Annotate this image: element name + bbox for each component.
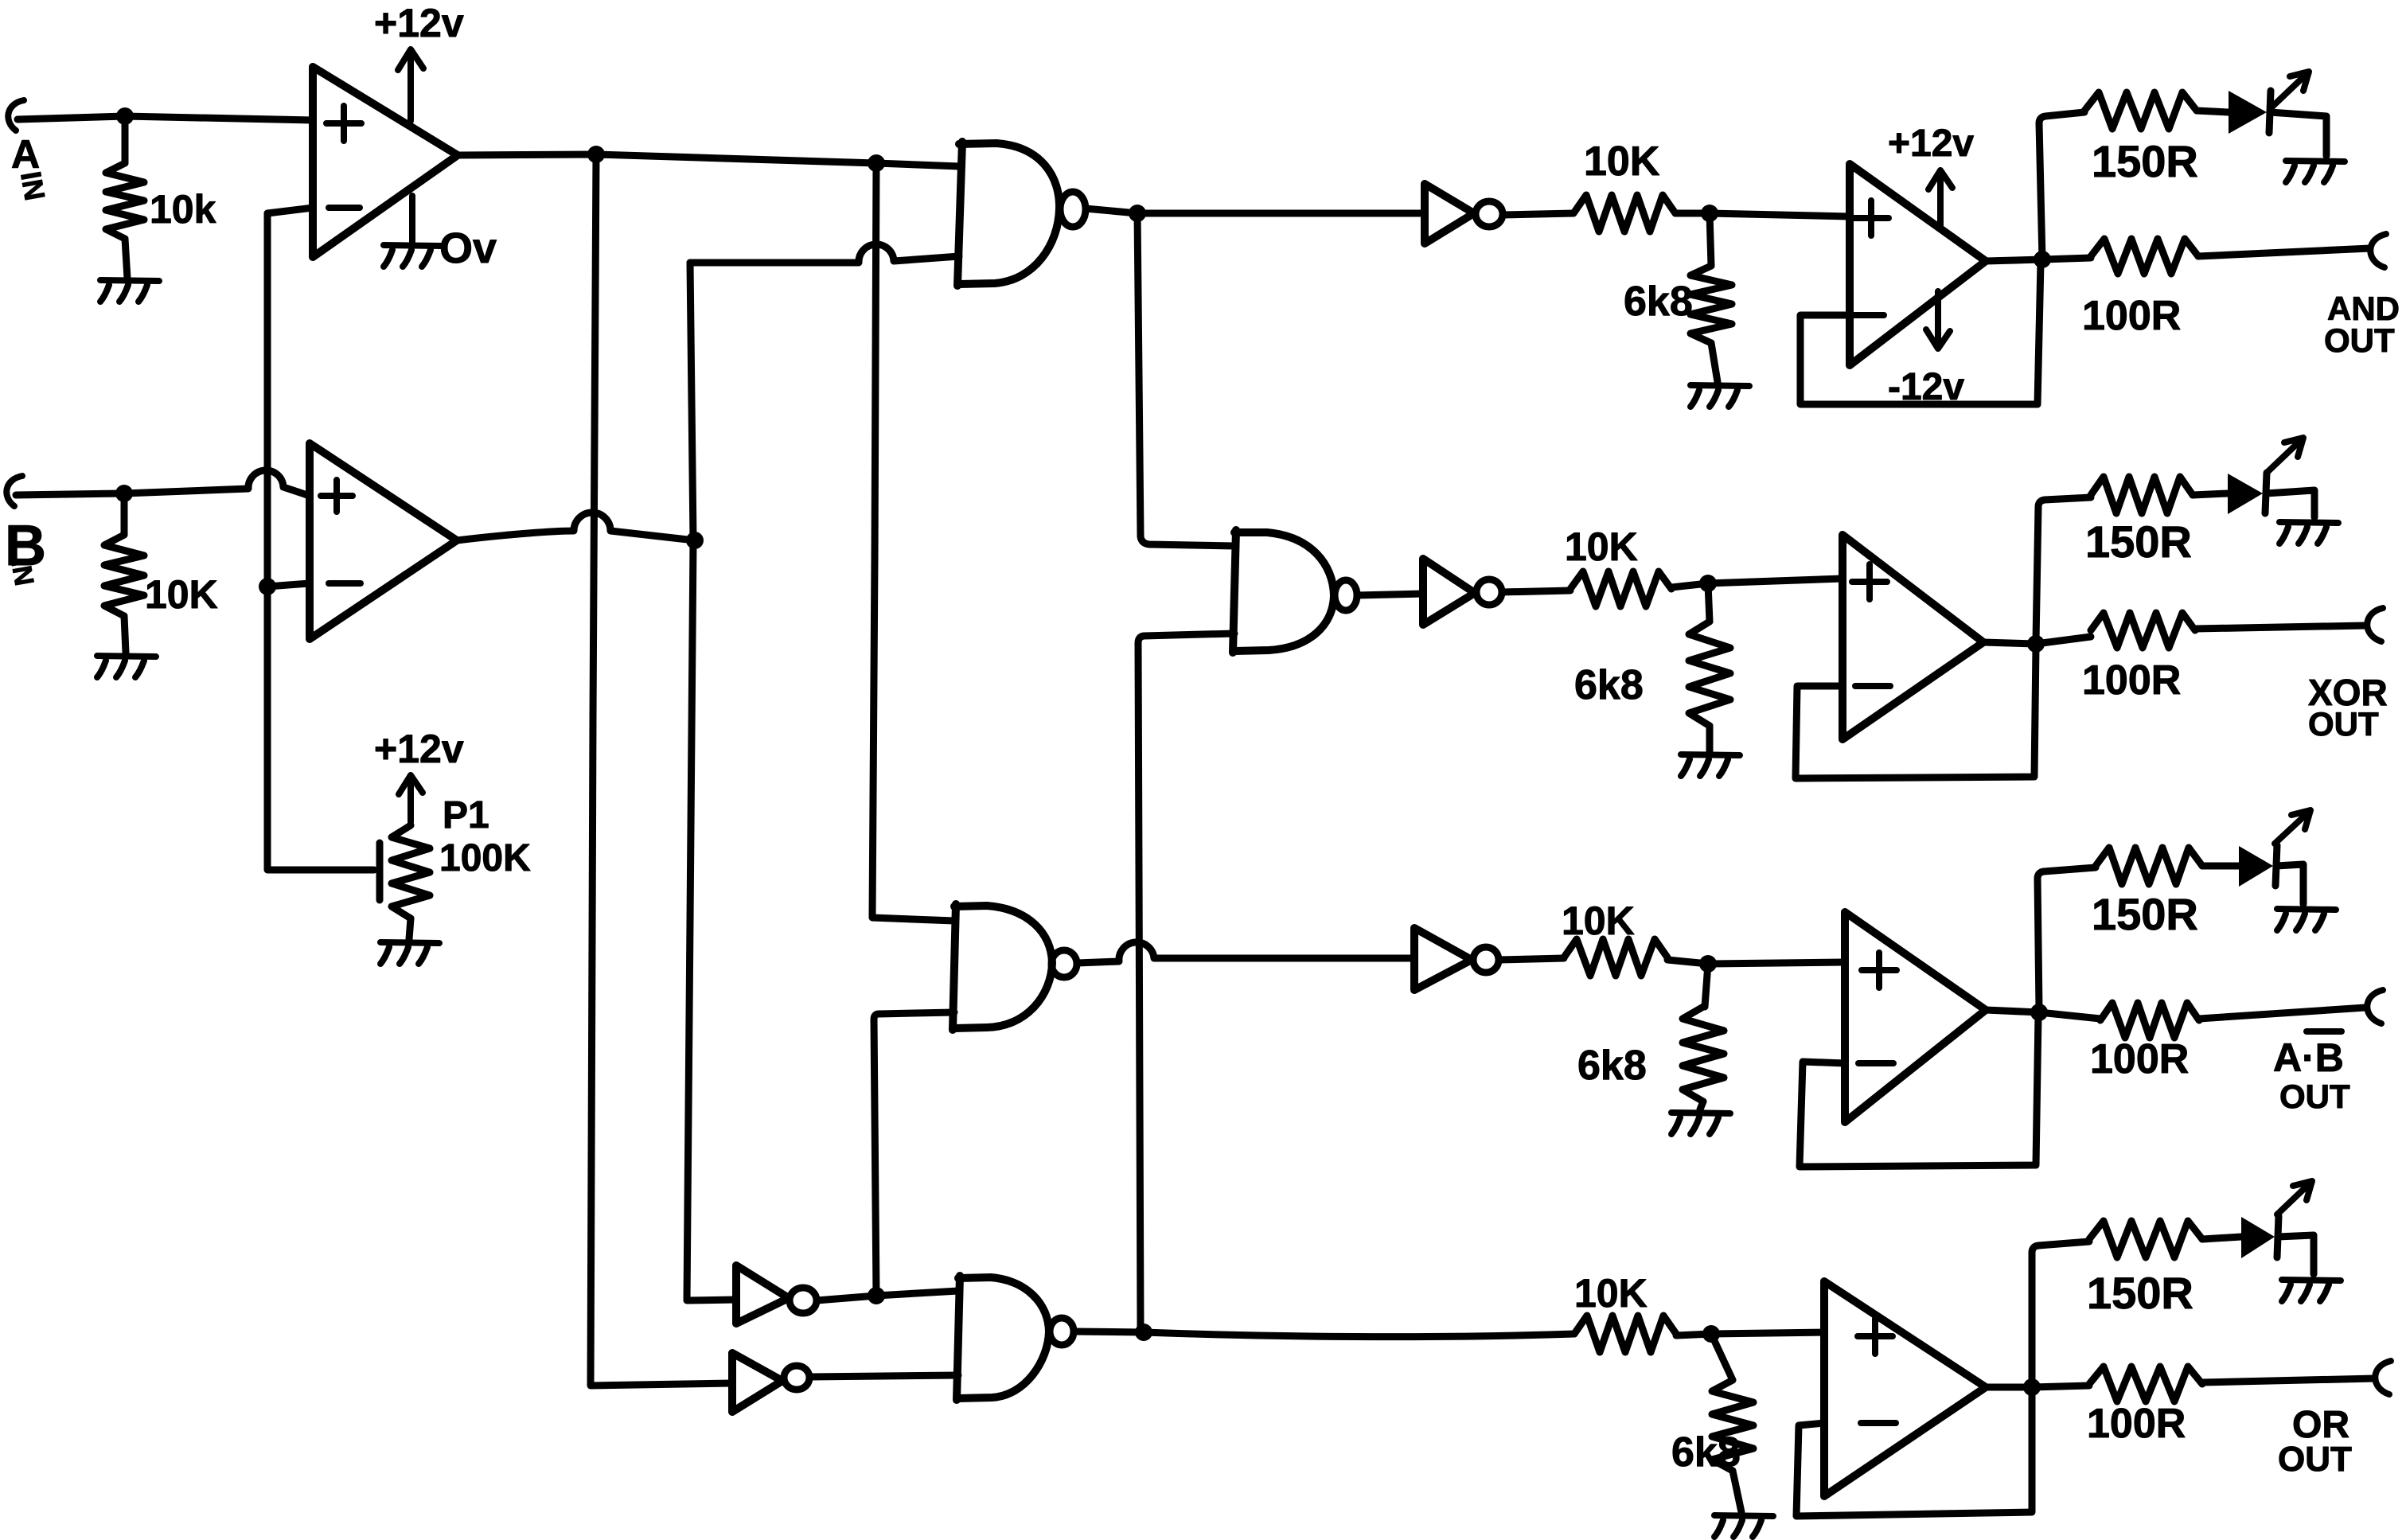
wire U1 output to NAND G1 top input: [458, 154, 959, 166]
LED D1 arrow: [2272, 72, 2309, 107]
wire vertical rail to NAND G4 top input: [872, 163, 954, 921]
6k8 row3 bottom lead: [1700, 1101, 1703, 1109]
ground (LED D3): [2277, 909, 2336, 930]
op-amp U2 (comparator B): [310, 443, 457, 639]
U3 -12v arrow: [1926, 291, 1950, 349]
svg-text:A·B: A·B: [2273, 1035, 2344, 1080]
resistor 10K (B input) lead: [121, 493, 128, 535]
resistor 150R (row3): [2096, 848, 2202, 884]
resistor 6k8 (row2): [1689, 622, 1730, 726]
svg-text:10K: 10K: [1565, 524, 1638, 569]
6k8 row2 bottom lead: [1706, 726, 1714, 751]
svg-text:10K: 10K: [1562, 899, 1635, 943]
U1 0v pin wire: [409, 196, 415, 242]
ground (U1 0v): [384, 245, 443, 267]
svg-text:IN: IN: [5, 556, 39, 588]
P1 bottom lead: [409, 918, 411, 939]
svg-text:150R: 150R: [2092, 889, 2198, 939]
node row1 divider junction: [1701, 205, 1718, 222]
node B junction: [115, 485, 133, 502]
svg-text:OUT: OUT: [2324, 322, 2395, 359]
node U6 output junction: [2023, 1378, 2041, 1396]
6k8 row1 bottom lead: [1711, 343, 1718, 382]
wire U3 output: [1986, 259, 2042, 261]
node U4 output junction: [2027, 635, 2045, 653]
inverter G2 (row1): [1425, 184, 1474, 244]
svg-text:150R: 150R: [2085, 517, 2192, 567]
LED D1 (row1): [2229, 91, 2267, 134]
NAND gate G4 bubble: [1051, 950, 1077, 977]
gate G3 bubble: [1335, 580, 1357, 610]
NOR gate G9 bubble: [1050, 1318, 1074, 1345]
wire A IN to comparator U1 + input: [18, 116, 313, 120]
resistor 10K (row2): [1570, 571, 1671, 606]
wire U4 output: [1983, 642, 2036, 644]
wire LED D3 to ground: [2276, 864, 2303, 904]
wire U6 output: [1986, 1384, 2032, 1391]
NAND gate G4 left edge: [953, 904, 956, 1030]
resistor 100R (row2) lead: [2036, 637, 2091, 644]
ground (P1): [380, 942, 439, 964]
LED D3 arrow: [2275, 810, 2310, 844]
output terminal XOR OUT: [2367, 608, 2383, 641]
gate G3 body: [1234, 532, 1334, 651]
resistor 100R (row2): [2091, 613, 2195, 648]
wire G7 to 10K (row2): [1502, 591, 1570, 592]
wire G2 to 10K (row1): [1503, 213, 1573, 215]
ground (LED D2): [2279, 522, 2338, 544]
resistor 6k8 (row2) lead: [1708, 583, 1710, 622]
resistor 10k (A input) lead: [122, 116, 129, 163]
wire G3 output to inverter G7: [1357, 594, 1423, 595]
node A-out to G4 junction: [868, 154, 885, 172]
svg-text:150R: 150R: [2092, 136, 2198, 186]
wire 100R to A.B OUT: [2199, 1008, 2365, 1019]
LED D3 cathode bar: [2275, 845, 2277, 886]
resistor 10k (A input): [106, 163, 144, 239]
ground (LED D4): [2282, 1280, 2341, 1301]
wire 10K to op-amp U5 + input: [1667, 960, 1845, 964]
resistor 6k8 (row1) lead: [1710, 213, 1711, 266]
wire to 150R (row2): [2036, 497, 2091, 641]
U3 - sign: [1850, 312, 1884, 318]
NAND gate G1 left edge: [957, 142, 962, 286]
resistor 10K (B) bottom lead: [124, 616, 126, 653]
potentiometer P1 body (100K): [392, 825, 430, 918]
svg-text:100R: 100R: [2082, 293, 2181, 339]
svg-text:A: A: [11, 132, 40, 177]
LED D2 (row2): [2228, 474, 2263, 514]
wire B IN to comparator U2 + input (hops over node-C rail): [16, 470, 310, 496]
svg-text:+12v: +12v: [1888, 123, 1974, 165]
op-amp U3 (AND buffer): [1850, 164, 1986, 365]
wire 150R to LED (row4): [2202, 1237, 2241, 1239]
wire LED D1 to ground: [2270, 112, 2326, 156]
U6 - sign: [1861, 1420, 1896, 1426]
wire G6 output to NOR G9 bottom input: [809, 1375, 958, 1377]
wire LED D2 to ground: [2266, 490, 2314, 517]
inverter G5 (B-bar): [736, 1265, 789, 1324]
LED D1 cathode bar: [2269, 91, 2271, 133]
resistor 10k (A) bottom lead: [125, 239, 127, 279]
resistor 6k8 (row3): [1683, 1007, 1724, 1101]
LED D4 (row4): [2241, 1217, 2275, 1258]
svg-text:+12v: +12v: [374, 727, 464, 771]
node C junction at U2 - input: [259, 578, 276, 595]
P1 wiper bar: [376, 843, 384, 900]
NAND gate G4 body: [954, 906, 1052, 1028]
U3 + sign: [1854, 201, 1889, 236]
svg-text:100R: 100R: [2082, 657, 2181, 704]
wire 100R to AND OUT: [2198, 248, 2370, 256]
wire G9 output to 10K (row4): [1074, 1331, 1574, 1337]
gate G3 left edge: [1233, 530, 1236, 653]
wire A-out vertical rail down to inverter G6 input: [591, 154, 732, 1386]
resistor 100R (row4): [2089, 1367, 2202, 1402]
svg-text:OUT: OUT: [2308, 705, 2379, 743]
wire U1 - input from node C rail: [267, 208, 313, 213]
resistor 10K (B input): [104, 535, 144, 616]
U1 +12v supply arrow: [398, 49, 423, 121]
wire 150R to LED (row1): [2197, 111, 2229, 112]
wire G8 to 10K (row3): [1499, 958, 1564, 960]
input terminal B IN: [6, 476, 22, 506]
wire to 150R (row1): [2039, 112, 2084, 259]
svg-text:100R: 100R: [2090, 1036, 2189, 1082]
NAND gate G1 bubble: [1060, 192, 1086, 227]
wire G1 bottom input (hops over G4 rail): [690, 244, 959, 263]
LED D4 arrow: [2277, 1181, 2312, 1214]
wire G4 output to inverter G8 (hops over G3 rail): [1077, 942, 1414, 963]
inverter G2 bubble: [1476, 201, 1503, 227]
U3 feedback loop: [1800, 263, 2041, 404]
wire 150R to LED (row3): [2202, 863, 2239, 870]
node G9 output junction: [1135, 1324, 1152, 1341]
svg-text:10k: 10k: [150, 187, 216, 232]
resistor 100R (row1): [2091, 239, 2198, 274]
wire to 150R (row3): [2037, 867, 2096, 1009]
wire 100R to XOR OUT: [2195, 626, 2365, 629]
inverter G6 (A-bar): [732, 1353, 782, 1412]
ground (row2 6k8): [1681, 754, 1740, 776]
U6 + sign: [1858, 1319, 1893, 1354]
U2 - sign: [329, 580, 361, 587]
NOR gate G9 body: [958, 1277, 1049, 1398]
LED D2 cathode bar: [2265, 473, 2267, 513]
inverter G6 bubble: [784, 1366, 809, 1390]
U4 + sign: [1852, 564, 1887, 599]
resistor 100R (row3): [2100, 1003, 2199, 1038]
node A junction: [116, 107, 134, 125]
NAND gate G1 body: [959, 143, 1059, 284]
node U5 output junction: [2030, 1004, 2048, 1021]
resistor 100R (row3) lead: [2039, 1012, 2100, 1019]
resistor 10K (row3): [1564, 939, 1667, 976]
resistor 150R (row4): [2089, 1221, 2202, 1257]
inverter G8 (row3): [1414, 928, 1472, 990]
inverter G5 bubble: [790, 1288, 817, 1313]
wire U2 - input stub: [267, 583, 310, 587]
wire 10K to op-amp U3 + input: [1675, 213, 1850, 216]
node row3 divider junction: [1699, 955, 1717, 973]
wire LED D4 to ground: [2278, 1235, 2314, 1274]
svg-text:Ov: Ov: [439, 224, 497, 272]
svg-text:100R: 100R: [2087, 1401, 2186, 1447]
svg-text:6k8: 6k8: [1624, 279, 1693, 325]
node B-out junction: [686, 532, 704, 549]
op-amp U4 (XOR buffer): [1843, 535, 1983, 739]
svg-text:IN: IN: [14, 169, 52, 203]
wire node C rail (both - inputs to P1 wiper): [267, 213, 374, 870]
wire U5 output: [1986, 1010, 2039, 1012]
svg-text:10K: 10K: [145, 572, 218, 617]
wire U2 output to B rail (hops over A rail): [457, 513, 695, 540]
svg-text:6k8: 6k8: [1574, 662, 1644, 708]
wire G1 output to inverter G2: [1086, 209, 1425, 213]
ground (row1 6k8): [1690, 385, 1749, 407]
output terminal AND OUT: [2370, 234, 2386, 267]
resistor 150R (row1): [2084, 92, 2197, 129]
op-amp U5 (A.B buffer): [1845, 912, 1986, 1122]
resistor 6k8 (row3) lead: [1705, 964, 1708, 1007]
resistor 10K (row4): [1574, 1316, 1676, 1352]
U1 - sign: [329, 205, 360, 211]
U5 + sign: [1862, 953, 1897, 988]
resistor 6k8 (row1): [1690, 266, 1732, 343]
resistor 6k8 (row4) lead: [1711, 1334, 1733, 1380]
wire G4 bottom input stub down to inverter G5 output node: [874, 1012, 954, 1296]
NOR gate G9 left edge: [957, 1276, 960, 1400]
LED D3 (row3): [2239, 846, 2273, 887]
svg-text:P1: P1: [443, 794, 489, 836]
op-amp U6 (OR buffer): [1824, 1281, 1986, 1496]
wire B rail: NAND G1 bottom input down to inverter G5 input: [687, 263, 736, 1300]
U2 + sign: [321, 480, 353, 512]
output terminal A.B OUT: [2367, 990, 2383, 1023]
node A-out junction: [587, 146, 605, 163]
resistor 100R (row4) lead: [2032, 1386, 2089, 1387]
wire G5 output to NOR G9 top input: [817, 1291, 958, 1300]
output terminal OR OUT: [2375, 1361, 2391, 1394]
svg-text:100K: 100K: [439, 837, 531, 879]
LED D2 arrow: [2268, 438, 2303, 471]
wire 100R to OR OUT: [2202, 1378, 2375, 1382]
LED D4 cathode bar: [2277, 1216, 2279, 1257]
svg-text:OUT: OUT: [2278, 1440, 2352, 1479]
resistor 6k8 (row4): [1712, 1380, 1753, 1471]
U5 - sign: [1858, 1060, 1893, 1066]
svg-text:10K: 10K: [1574, 1271, 1648, 1316]
inverter G8 bubble: [1473, 947, 1499, 973]
node row2 divider junction: [1699, 575, 1717, 592]
svg-text:6k8: 6k8: [1577, 1043, 1647, 1089]
resistor 150R (row2): [2091, 477, 2193, 513]
U5 feedback loop: [1800, 1016, 2038, 1167]
op-amp U1 (comparator A): [313, 67, 458, 257]
node G1 output junction: [1129, 205, 1146, 222]
wire 10K to op-amp U6 + input: [1676, 1332, 1824, 1335]
resistor 10K (row1): [1573, 195, 1675, 232]
U4 - sign: [1855, 683, 1890, 689]
input terminal A IN: [8, 100, 24, 131]
wire G3 bottom input stub: [1138, 634, 1234, 1331]
node U3 output junction: [2034, 251, 2051, 268]
wire 10K to op-amp U4 + input: [1671, 579, 1843, 587]
wire to 150R (row4): [2032, 1242, 2089, 1385]
ground (row3 6k8): [1671, 1113, 1730, 1134]
U6 feedback loop: [1796, 1390, 2032, 1516]
inverter G7 bubble: [1476, 579, 1502, 605]
node G5 output junction: [868, 1287, 885, 1304]
ground (row4 6k8): [1714, 1515, 1773, 1537]
svg-text:6k8: 6k8: [1671, 1429, 1741, 1476]
node row4 divider junction: [1702, 1325, 1720, 1343]
resistor 100R (row1) lead: [2042, 258, 2091, 259]
P1 +12v arrow: [399, 775, 423, 822]
ground (B 10K): [97, 656, 156, 677]
U4 feedback loop: [1796, 646, 2036, 778]
6k8 row4 bottom lead: [1733, 1471, 1741, 1512]
inverter G7 (row2): [1423, 559, 1475, 625]
svg-text:+12v: +12v: [374, 1, 464, 45]
U3 +12v arrow: [1928, 170, 1952, 229]
wire G1-out vertical to XOR G3 top input: [1137, 213, 1234, 546]
U1 + sign: [326, 106, 361, 141]
wire 150R to LED (row2): [2193, 493, 2228, 495]
svg-text:150R: 150R: [2087, 1268, 2193, 1318]
svg-text:10K: 10K: [1584, 138, 1660, 185]
ground (LED D1): [2286, 161, 2345, 182]
svg-text:OUT: OUT: [2279, 1078, 2350, 1115]
ground (A 10k): [100, 280, 159, 302]
